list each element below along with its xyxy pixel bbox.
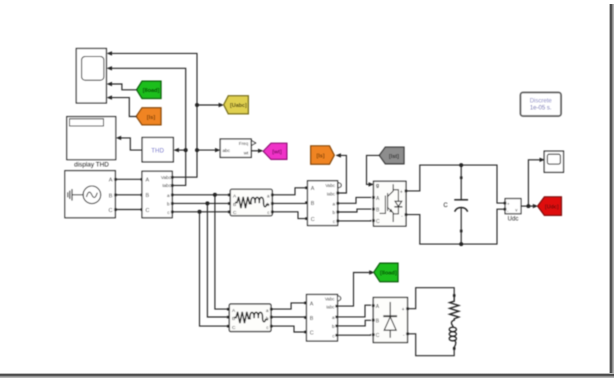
resistor R inside RLC2 (235, 312, 250, 323)
diode D1 anti-parallel inside bridge (393, 190, 402, 214)
svg-text:A: A (109, 178, 113, 184)
block BR2 Universal Bridge (Diodes) (373, 298, 407, 343)
pin Scope in4 arrowhead (107, 95, 112, 99)
source AC three-phase programmable source (65, 171, 115, 218)
wire V-I3 b to diode bridge B (338, 320, 371, 326)
svg-text:+: + (400, 189, 403, 195)
svg-text:A: A (310, 301, 314, 307)
wire tap b down to RLC2 B (207, 203, 229, 317)
svg-text:wt: wt (244, 150, 249, 155)
block RLC2 Three-Phase Series RLC Branch 1 (229, 304, 271, 332)
svg-text:1e-05 s.: 1e-05 s. (530, 105, 552, 111)
svg-text:B: B (146, 193, 150, 199)
pin V-I1 c port square (171, 211, 174, 214)
node cap top junction (459, 163, 463, 167)
wire V-I3 a to diode bridge A (338, 305, 371, 317)
wire From [Ist] to bridge g input (367, 155, 380, 184)
tag From [Iload] (green) (137, 81, 161, 98)
wire RLC2 a to V-I3 A (271, 303, 305, 309)
tag Goto [Iload]2 (green) (374, 263, 398, 282)
wire V-I2 Iabc up to Goto [Is] (338, 155, 347, 193)
capacitor C (455, 165, 467, 244)
svg-text:Vabc: Vabc (161, 175, 172, 180)
node J4 Udc signal junction (526, 204, 530, 208)
wire source B to V-I1 B (115, 194, 142, 196)
frame shadow right edge (609, 4, 614, 378)
svg-text:Vabc: Vabc (325, 296, 335, 301)
svg-text:b: b (167, 202, 170, 207)
scope Scope (mirrored, 4 inputs) (76, 49, 106, 104)
node J3 on Iabc net (184, 148, 188, 152)
svg-text:b: b (332, 210, 335, 215)
pin Udc port squares (504, 202, 507, 205)
svg-text:[Iload]: [Iload] (380, 271, 397, 277)
tag Goto [wt] (magenta) (263, 143, 287, 159)
ground symbol of source (68, 190, 72, 200)
svg-text:Iabc: Iabc (326, 304, 335, 309)
svg-text:g: g (376, 183, 379, 189)
wire V-I3 Iabc up to Goto [Iload]2 (338, 273, 371, 307)
svg-text:B: B (311, 201, 315, 207)
pin V-I3 Vabc unconnected output (338, 296, 341, 301)
pin load port squares (453, 294, 456, 297)
wire PLL wt to Goto [wt] (251, 150, 259, 152)
wire Udc output to junction (521, 205, 528, 207)
svg-text:C: C (310, 330, 314, 336)
svg-text:C: C (443, 203, 448, 209)
tag Goto [Udc] (red) (538, 197, 562, 216)
wire V-I1 c to RLC1 C (172, 211, 230, 213)
block powergui Discrete 1e-05 s. (521, 93, 562, 117)
pin PLL Freq unconnected output (251, 141, 255, 146)
wire RLC2 c to V-I3 C (271, 326, 305, 332)
svg-text:B: B (310, 316, 314, 322)
wire DC+ bus: bridge + to cap top to Udc + (406, 165, 505, 203)
svg-text:b: b (332, 324, 335, 329)
wire V-I3 c to diode bridge C (338, 334, 371, 337)
svg-text:[Is]: [Is] (316, 154, 324, 160)
svg-text:a: a (332, 201, 335, 206)
pin V-I2 port squares left (305, 187, 339, 223)
pin RLC2 port squares (227, 308, 273, 328)
node cap bottom junction (459, 242, 463, 246)
svg-text:Udc: Udc (508, 216, 519, 222)
pin V-I1 Iabc port square (171, 184, 174, 187)
svg-text:[wt]: [wt] (272, 150, 282, 156)
tag Goto [Uabc] (yellow) (224, 96, 249, 114)
node J1 on Vabc net (195, 103, 199, 107)
svg-text:B: B (232, 316, 235, 322)
inductor Lload (vertical) (449, 320, 456, 347)
block RLC1 Three-Phase Series RLC Branch (230, 189, 272, 216)
wire DC- bus: bridge - to cap bottom to Udc - (406, 209, 505, 244)
wire RLC1 a to V-I2 A (272, 188, 306, 195)
pin V-I2 Vabc unconnected output (338, 183, 341, 188)
svg-text:[Uabc]: [Uabc] (230, 103, 247, 109)
svg-text:[Iload]: [Iload] (143, 88, 160, 94)
svg-text:C: C (146, 208, 150, 214)
wire load + : bridge + to RL load top (408, 288, 455, 309)
pin display input arrowhead (116, 136, 121, 140)
wire THD output to display input (120, 138, 142, 150)
tag From [Ist] (gray) (379, 147, 404, 164)
block U3 Three-Phase V-I Measurement 3 (307, 295, 338, 342)
node Tc tap phase c (198, 210, 202, 214)
wire net Iabc: V-I1 Iabc output up to Scope in2 (111, 68, 186, 185)
wire J2 to PLL abc input (197, 149, 216, 151)
pin V-I1 a port square (171, 194, 174, 197)
resistor Rload (vertical) (450, 297, 459, 321)
pin V-I1 Vabc port square (171, 176, 174, 179)
wire RLC2 b to V-I3 B (271, 316, 305, 319)
svg-text:+: + (402, 307, 405, 313)
pin diode bridge port squares (372, 304, 409, 336)
wire source C to V-I1 C (115, 209, 142, 211)
svg-text:Vabc: Vabc (325, 183, 335, 188)
wire J4 to Goto [Udc] (528, 205, 533, 207)
wire From [Iload] to Scope in3 (111, 84, 137, 90)
wire J1 to Goto [Uabc] (197, 104, 220, 106)
frame shadow bottom edge (0, 373, 614, 378)
pin capacitor port squares (460, 176, 463, 179)
svg-text:[Udc]: [Udc] (545, 205, 559, 211)
tag Goto [Is] (orange, right-pointing) (311, 146, 335, 164)
svg-text:Iabc: Iabc (327, 191, 336, 196)
wire V-I2 b to bridge B (338, 209, 371, 212)
block BR1 Universal Bridge (IGBT) (374, 181, 407, 226)
node Ta tap phase a (213, 193, 217, 197)
transistor IGBT symbol inside bridge (380, 185, 393, 222)
svg-text:THD: THD (151, 147, 164, 154)
wire V-I1 a to RLC1 A (172, 194, 230, 196)
resistor R inside RLC1 (236, 197, 251, 208)
svg-text:C: C (232, 325, 236, 331)
svg-text:B: B (109, 193, 113, 199)
block THD (mirrored) (142, 138, 173, 162)
block U1 Three-Phase V-I Measurement 1 (142, 171, 172, 217)
scope Scope1 (small, top right) (544, 151, 563, 172)
svg-text:C: C (233, 210, 237, 216)
wire V-I2 c to bridge C (338, 220, 371, 222)
diode D2 inside bridge (384, 303, 396, 338)
svg-text:A: A (311, 186, 315, 192)
block PLL Discrete Virtual PLL (Freq / abc / wt) (220, 139, 251, 157)
svg-text:C: C (376, 219, 380, 225)
svg-text:display THD: display THD (74, 162, 109, 169)
block U2 Three-Phase V-I Measurement 2 (308, 181, 338, 226)
svg-text:A: A (146, 178, 150, 184)
svg-text:C: C (311, 217, 315, 223)
block Display "display THD" (mirrored) (67, 117, 116, 160)
wire load - : RL load bottom to bridge - (408, 334, 455, 356)
svg-text:[Is]: [Is] (147, 115, 156, 121)
svg-text:Freq: Freq (239, 141, 249, 146)
wire tap c down to RLC2 C (200, 212, 230, 326)
wire J3 to THD input (178, 149, 186, 151)
pin RLC1 port squares (228, 194, 274, 214)
svg-text:[Ist]: [Ist] (389, 154, 399, 160)
pin bridge port squares (372, 190, 407, 222)
node Tb tap phase b (205, 201, 209, 205)
svg-text:+: + (507, 202, 510, 207)
block VM1 Voltage Measurement Udc (505, 199, 521, 214)
svg-text:Discrete: Discrete (530, 99, 553, 105)
inductor L inside RLC2 (250, 312, 267, 321)
pin Scope in3 arrowhead (107, 82, 112, 86)
wire source A to V-I1 A (115, 178, 142, 180)
svg-text:Iabc: Iabc (162, 183, 171, 188)
wire tap a down to RLC2 A (215, 195, 229, 309)
pin Scope in2 arrowhead (107, 66, 112, 70)
wire V-I1 b to RLC1 B (172, 202, 230, 204)
tag From [Is] (orange) (136, 108, 161, 125)
wire net Vabc: V-I1 Vabc output up to Scope in1 (111, 53, 197, 177)
wire RLC1 c to V-I2 C (272, 212, 306, 219)
pin Scope in1 arrowhead (107, 51, 112, 55)
inductor L inside RLC1 (251, 197, 268, 206)
wire V-I2 a to bridge A (338, 197, 371, 203)
svg-text:a: a (167, 193, 170, 198)
wire RLC1 b to V-I2 B (272, 202, 306, 205)
wire From [Is] to Scope in4 (111, 98, 136, 117)
svg-text:abc: abc (223, 148, 231, 153)
wire J4 up to Scope1 input (528, 160, 540, 206)
pin V-I1 b port square (171, 202, 174, 205)
node J2 on Vabc net (195, 148, 199, 152)
svg-text:C: C (376, 333, 380, 339)
svg-text:a: a (332, 315, 335, 320)
pin V-I3 port squares (304, 302, 338, 337)
svg-text:C: C (108, 208, 112, 214)
